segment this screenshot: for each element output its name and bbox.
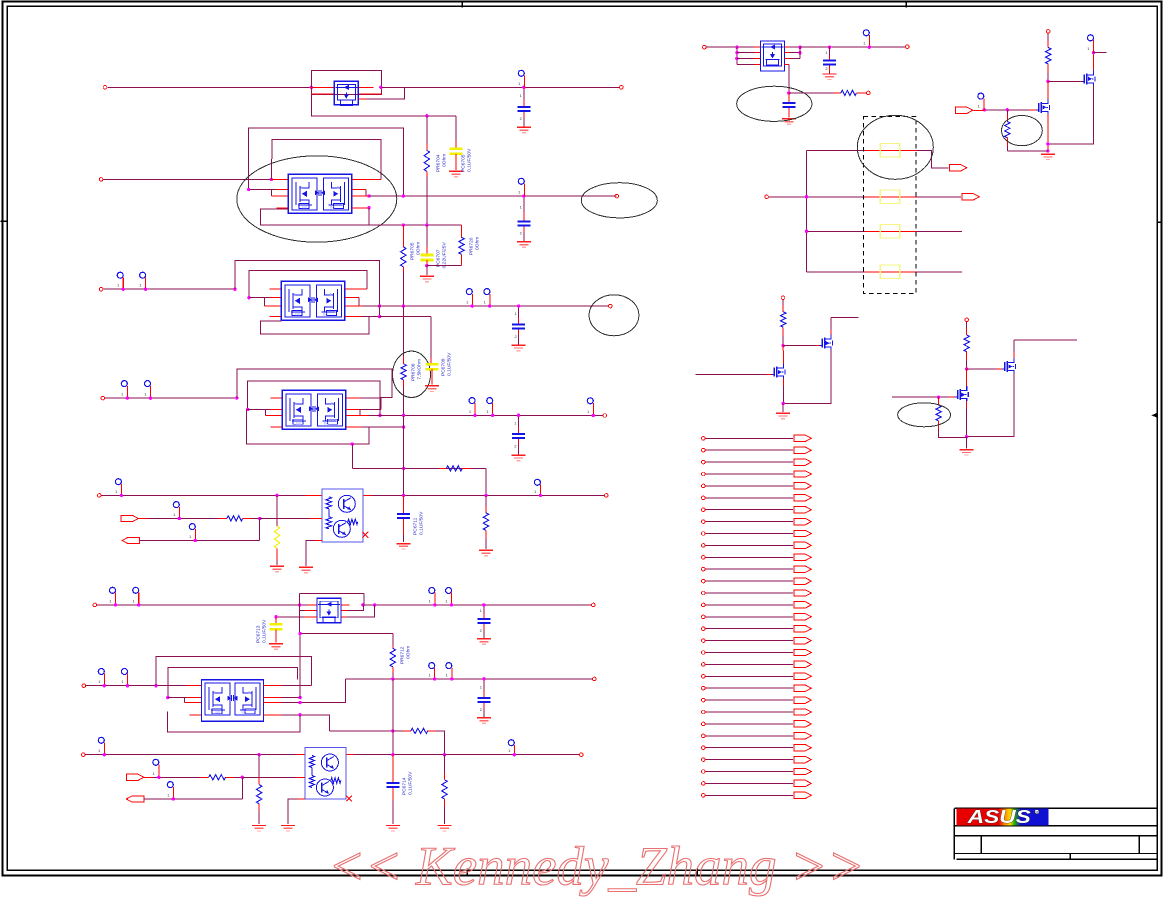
junction rowG in bbox=[298, 603, 301, 606]
pin conn row3 bbox=[702, 460, 706, 464]
svg-text:PR6705: PR6705 bbox=[409, 242, 415, 260]
connector arrow row16 bbox=[794, 614, 812, 620]
junction B r4 bbox=[378, 315, 381, 318]
connector arrow D in bbox=[121, 515, 139, 521]
wire rowF main left bbox=[85, 754, 305, 756]
wire conn row24 bbox=[705, 711, 793, 713]
pin input rowE bbox=[82, 684, 86, 688]
title block line4 bbox=[954, 853, 1157, 855]
wire bus B-R6708 bbox=[402, 306, 404, 357]
wire rowB out bbox=[362, 305, 608, 307]
wire nodeB left bbox=[1007, 150, 1048, 152]
resistor RF lead1 bbox=[200, 776, 208, 778]
junction rowE p1 bbox=[103, 684, 106, 687]
connector arrow row26 bbox=[794, 733, 812, 739]
pin stub D bot bbox=[314, 540, 322, 542]
wire conn row31 bbox=[705, 794, 793, 796]
pin stub B right4 bbox=[345, 316, 380, 318]
ground PC6705 bbox=[449, 171, 463, 177]
pin stub H right2 bbox=[785, 52, 790, 54]
wire bus C-D bbox=[403, 415, 405, 468]
capacitor PC6714 lead2 bbox=[392, 788, 394, 800]
pin stub B right2 bbox=[345, 297, 359, 299]
junction E r4 bbox=[298, 713, 301, 716]
pin conn row2 bbox=[702, 448, 706, 452]
junction rowC rp1 bbox=[473, 414, 476, 417]
junction rowF bus bbox=[391, 753, 394, 756]
wire Q6705 source bbox=[967, 373, 1014, 437]
label PC6714 bbox=[401, 771, 413, 795]
wire link row1 left bbox=[807, 149, 865, 151]
resistor R6712c bbox=[964, 322, 969, 361]
wire arrowF2 vert bbox=[241, 777, 243, 799]
capacitor PC6711 bbox=[397, 514, 410, 518]
pin stub B right1 bbox=[345, 288, 367, 290]
wire E row1 right bbox=[282, 685, 312, 687]
pin stub E right3 bbox=[263, 702, 281, 704]
wire Q6702 drain bbox=[1093, 53, 1095, 71]
resistor PR6720 bbox=[459, 237, 464, 254]
junction E bus out bbox=[391, 677, 394, 680]
capacitor PC6707 lead bbox=[426, 225, 428, 254]
wire nodeF stem bbox=[966, 437, 968, 449]
junction rowD r2 bbox=[484, 494, 487, 497]
junction rowE rp2 bbox=[450, 677, 453, 680]
title block line3 bbox=[954, 835, 1157, 837]
wire A right bridge bbox=[365, 190, 367, 197]
wire row1 out bbox=[381, 86, 619, 88]
wire loop G topL bbox=[299, 594, 301, 605]
pin end rowB bbox=[609, 304, 613, 308]
wire input rowC bbox=[105, 397, 237, 399]
pin conn row28 bbox=[702, 758, 706, 762]
ellipse around link row1 bbox=[857, 115, 933, 179]
svg-text:ASUS: ASUS bbox=[967, 806, 1032, 827]
junction nodeC bbox=[782, 344, 785, 347]
junction nodeE bbox=[965, 367, 968, 370]
svg-text:0Ohm: 0Ohm bbox=[474, 237, 480, 250]
junction arrowF2 bbox=[172, 797, 175, 800]
ground F bottom bbox=[281, 826, 295, 832]
pin stub E right2 bbox=[263, 697, 281, 699]
pin stub F right bbox=[346, 754, 354, 756]
ground RF3 bbox=[438, 826, 452, 832]
junction cap rowG bbox=[482, 603, 485, 606]
ground D bottom bbox=[299, 567, 313, 573]
pin conn row30 bbox=[702, 782, 706, 786]
junction E left2 bbox=[166, 696, 169, 699]
junction cap rowC bbox=[517, 414, 520, 417]
resistor R link bbox=[446, 466, 462, 471]
pin stub E left1 bbox=[186, 685, 201, 687]
wire conn row17 bbox=[705, 628, 793, 630]
wire F bottom pin bbox=[288, 799, 305, 824]
pin input rowA bbox=[99, 178, 103, 182]
junction rowC rp2 bbox=[491, 414, 494, 417]
resistor PR6712 bbox=[390, 645, 395, 672]
connector arrow row23 bbox=[794, 697, 812, 703]
pin stub B right3 bbox=[345, 305, 363, 307]
wire link row3 right bbox=[916, 230, 962, 232]
svg-text:B6: B6 bbox=[302, 204, 308, 209]
wire B left bridge bbox=[263, 298, 265, 306]
pin stub B left1 bbox=[269, 288, 281, 290]
border tick right bbox=[1156, 221, 1162, 223]
resistor R link2 bbox=[411, 728, 428, 733]
connector arrow row7 bbox=[794, 507, 812, 513]
pin circle arrowF2 bbox=[167, 782, 173, 799]
connector arrow row11 bbox=[794, 554, 812, 560]
pin circle rowH bbox=[863, 30, 869, 47]
wire bus E-F bbox=[392, 679, 394, 755]
ellipse around R6713 bbox=[898, 403, 951, 427]
pin conn row11 bbox=[702, 556, 706, 560]
junction row1 left bbox=[310, 86, 313, 89]
wire E r2 up bbox=[299, 634, 301, 698]
wire rowD link bbox=[352, 468, 486, 470]
wire PQ6701 down branch bbox=[311, 94, 456, 116]
pin conn row8 bbox=[702, 520, 706, 524]
pin R6712 top bbox=[965, 318, 969, 322]
wire input rowA bbox=[103, 178, 271, 180]
wire H rrow2 bbox=[789, 52, 800, 54]
pin stub B left3 bbox=[264, 305, 281, 307]
junction rowE in bbox=[154, 684, 157, 687]
pin conn row27 bbox=[702, 746, 706, 750]
capacitor PC6705 bbox=[450, 149, 463, 154]
label PR6708 bbox=[410, 359, 422, 381]
pin stub G left1 bbox=[307, 604, 317, 606]
junction link2 bus bbox=[391, 729, 394, 732]
wire conn row25 bbox=[705, 723, 793, 725]
wire R6713 bot bbox=[939, 429, 967, 438]
junction arrowD2 bbox=[194, 539, 197, 542]
svg-text:PC6711: PC6711 bbox=[412, 517, 418, 535]
pin stub F in2 bbox=[297, 776, 305, 778]
wire arrowD2 vert bbox=[259, 519, 261, 541]
junction rowC in bbox=[235, 396, 238, 399]
wire yres down bbox=[276, 495, 278, 526]
pin stub Q6703 gate bbox=[815, 345, 819, 347]
junction rowE rp1 bbox=[433, 677, 436, 680]
transistor Q6704 bbox=[771, 364, 785, 379]
pin circle rowC 2 bbox=[144, 381, 150, 399]
pin end row1 bbox=[620, 86, 624, 90]
wire conn row5 bbox=[705, 485, 793, 487]
junction rowG rp2 bbox=[450, 603, 453, 606]
label PC6705 bbox=[460, 148, 472, 172]
connector arrow link1 bbox=[949, 165, 967, 171]
junction H l2 bbox=[735, 51, 738, 54]
resistor yellow PR bbox=[274, 526, 279, 548]
resistor R6709 bbox=[1046, 33, 1051, 72]
wire rowE out bbox=[346, 678, 593, 680]
junction Q6702 d bbox=[1092, 51, 1095, 54]
pin circle rowG 2 bbox=[132, 587, 138, 605]
pin circle rowF end bbox=[508, 740, 514, 755]
wire arrowD2 bbox=[140, 540, 260, 542]
junction rowF p1 bbox=[103, 753, 106, 756]
pin stub H right4 bbox=[785, 64, 789, 66]
wire link2 right bbox=[435, 731, 444, 755]
label PC6711 bbox=[412, 511, 424, 535]
junction rowD bus bbox=[402, 494, 405, 497]
wire yres gnd bbox=[276, 560, 278, 565]
wire conn row6 bbox=[705, 497, 793, 499]
wire G row2 left bbox=[300, 605, 312, 611]
pin stub C left2 bbox=[248, 409, 283, 411]
title block line2 bbox=[954, 825, 1157, 827]
wire H lrow3 bbox=[737, 58, 754, 60]
resistor R link lead1 bbox=[438, 468, 446, 470]
border tick top 1 bbox=[461, 0, 463, 7]
wire conn row29 bbox=[705, 771, 793, 773]
svg-text:PR6704: PR6704 bbox=[435, 154, 441, 172]
wire E left bridge bbox=[183, 698, 185, 703]
junction gate bbox=[1006, 108, 1009, 111]
wire conn row13 bbox=[705, 580, 793, 582]
wire rowH out bbox=[800, 46, 905, 48]
junction cluster2 c2 bbox=[425, 223, 428, 226]
connector arrow row25 bbox=[794, 721, 812, 727]
junction H r1 bbox=[798, 46, 801, 49]
junction rowB in bbox=[233, 287, 236, 290]
wire D bottom pin bbox=[306, 541, 322, 566]
junction nodeA bbox=[1046, 80, 1049, 83]
junction A left2 bbox=[247, 188, 250, 191]
wire nodeE down bbox=[966, 369, 968, 386]
connector arrow row4 bbox=[794, 471, 812, 477]
pin stub H left4 bbox=[754, 64, 761, 66]
wire nodeA right bbox=[1048, 80, 1080, 82]
pin circle arrow top bbox=[978, 93, 984, 110]
wire conn row18 bbox=[705, 640, 793, 642]
junction C row4 bus bbox=[402, 425, 405, 428]
pin circle rowD end bbox=[534, 479, 540, 495]
border tick bottom 2 bbox=[696, 868, 698, 876]
svg-text:0,22UF/25V: 0,22UF/25V bbox=[441, 242, 447, 269]
label PC6707 bbox=[435, 242, 447, 269]
connector arrow F out bbox=[126, 796, 144, 802]
wire nodeC right bbox=[783, 345, 815, 347]
label PR6720 bbox=[468, 237, 480, 256]
wire cluster2 bbox=[260, 224, 461, 226]
title block div3 bbox=[1069, 854, 1071, 860]
pin stub C left1 bbox=[270, 397, 282, 399]
wire E link bbox=[330, 730, 404, 732]
wire rowC out bbox=[368, 414, 603, 416]
svg-text:PC6714: PC6714 bbox=[401, 777, 407, 795]
connector arrow D out bbox=[122, 537, 140, 543]
mosfet pair PQ6702 bbox=[288, 174, 352, 213]
pin conn row4 bbox=[702, 472, 706, 476]
pin stub F inleft bbox=[296, 754, 305, 756]
pin input rowG bbox=[93, 603, 97, 607]
wire Q6705 drain bbox=[1013, 340, 1015, 358]
resistor yellow lead bbox=[276, 548, 278, 560]
pin conn row12 bbox=[702, 567, 706, 571]
mosfet pair PQ6703 bbox=[281, 281, 345, 320]
title block div1 bbox=[980, 836, 982, 854]
wire E lower loop bbox=[167, 711, 299, 732]
pin stub G right3 bbox=[341, 616, 346, 618]
wire rowG out bbox=[363, 604, 591, 606]
pin stub G left3 bbox=[304, 616, 317, 618]
wire conn row15 bbox=[705, 604, 793, 606]
wire conn row27 bbox=[705, 747, 793, 749]
wire arrow lead bbox=[973, 109, 984, 111]
junction A right4 bbox=[367, 206, 370, 209]
wire PR6712 top bbox=[392, 634, 394, 646]
inductor pack row3 bbox=[880, 225, 900, 239]
pin circle rowE r1 bbox=[428, 663, 434, 679]
junction rowD pe bbox=[539, 494, 542, 497]
wire B row4 right bbox=[380, 316, 432, 318]
pin conn row19 bbox=[702, 651, 706, 655]
wire RF to junction bbox=[234, 776, 243, 778]
wire conn row9 bbox=[705, 533, 793, 535]
connector arrow row5 bbox=[794, 483, 812, 489]
wire RD2 gnd bbox=[485, 538, 487, 549]
resistor RH lead2 bbox=[856, 92, 866, 94]
junction cap rowB bbox=[517, 304, 520, 307]
connector arrow row19 bbox=[794, 649, 812, 655]
pin conn row7 bbox=[702, 508, 706, 512]
pin conn row1 bbox=[702, 437, 706, 441]
wire conn row1 bbox=[705, 437, 793, 439]
wire Q6703 drain bbox=[830, 317, 832, 334]
pin stub PQ6701 right2 bbox=[358, 93, 381, 95]
transistor module PQ6708 bbox=[305, 748, 346, 800]
connector arrow row24 bbox=[794, 709, 812, 715]
wire Q6701 gate bbox=[1030, 109, 1036, 111]
pin conn row6 bbox=[702, 496, 706, 500]
pin conn row5 bbox=[702, 484, 706, 488]
junction rowD yres bbox=[275, 494, 278, 497]
capacitor C rowC bbox=[512, 415, 526, 461]
wire loop G topR bbox=[363, 594, 365, 605]
connector arrow row21 bbox=[794, 673, 812, 679]
capacitor CH lead2 bbox=[788, 108, 790, 118]
junction rowB p1 bbox=[122, 287, 125, 290]
pin stub G right1 bbox=[341, 604, 349, 606]
junction nodeD bbox=[782, 402, 785, 405]
pin stub Q6702 gate bbox=[1080, 80, 1084, 82]
wire C row4 to bus bbox=[369, 426, 404, 428]
junction H branch bbox=[787, 91, 790, 94]
wire G tap down bbox=[346, 605, 374, 617]
pin stub D in2 bbox=[309, 518, 322, 520]
junction rowE p2 bbox=[126, 684, 129, 687]
pin stub E right4 bbox=[263, 714, 281, 716]
ellipse around PQ6702 bbox=[237, 156, 397, 242]
wire link row2 red bbox=[865, 196, 916, 198]
capacitor PC6713 lead bbox=[275, 617, 277, 624]
resistor PR6708 lead2 bbox=[403, 380, 405, 387]
pin stub A right2 bbox=[352, 189, 366, 191]
wire R6712c node bbox=[966, 360, 968, 369]
transistor Q6705 bbox=[1002, 358, 1016, 373]
junction nodeB bbox=[1046, 142, 1049, 145]
inductor pack row4 bbox=[880, 265, 900, 279]
wire RF3 gnd bbox=[444, 806, 446, 824]
resistor RD2 bbox=[483, 495, 488, 538]
connector arrow row14 bbox=[794, 590, 812, 596]
pin end rowC bbox=[603, 414, 607, 418]
wire input rowB bbox=[103, 288, 235, 290]
wire input rowH bbox=[706, 46, 754, 48]
pin conn row21 bbox=[702, 675, 706, 679]
junction link row3 bbox=[805, 230, 808, 233]
pin stub PQ6701 right1 bbox=[358, 86, 373, 88]
connector arrow row22 bbox=[794, 685, 812, 691]
junction C bus bbox=[402, 414, 405, 417]
wire H branch right bbox=[789, 92, 834, 94]
junction gate2 bbox=[937, 395, 940, 398]
wire Q6701 drain bbox=[1047, 81, 1049, 99]
pin conn row9 bbox=[702, 532, 706, 536]
pin input rowH bbox=[703, 45, 707, 49]
pin end rowD bbox=[605, 494, 609, 498]
wire conn row3 bbox=[705, 461, 793, 463]
logo ASUS bbox=[956, 806, 1048, 827]
wire conn row7 bbox=[705, 509, 793, 511]
junction G yc bbox=[274, 615, 277, 618]
pin end rowF bbox=[580, 753, 584, 757]
wire input rowG bbox=[97, 604, 317, 606]
svg-text:0Ohm: 0Ohm bbox=[405, 646, 411, 659]
wire conn row2 bbox=[705, 449, 793, 451]
pin circle arrowD2 bbox=[189, 524, 195, 541]
junction H pc bbox=[868, 46, 871, 49]
wire Q6703 source bbox=[783, 350, 831, 404]
capacitor PC6709 lead bbox=[430, 357, 432, 363]
wire bus link-D bbox=[403, 469, 405, 496]
wire bus left links bbox=[806, 150, 808, 271]
wire RF2 gnd bbox=[258, 816, 260, 824]
resistor RD lead2 bbox=[243, 518, 252, 520]
transistor Q6703 bbox=[819, 335, 833, 350]
wire Q6702 stub right bbox=[1094, 52, 1107, 54]
wire conn row8 bbox=[705, 521, 793, 523]
pin R6709 top bbox=[1046, 30, 1050, 34]
svg-text:PC6713: PC6713 bbox=[255, 625, 261, 643]
pin conn row16 bbox=[702, 615, 706, 619]
wire conn row30 bbox=[705, 782, 793, 784]
wire Q6706 gate wire bbox=[892, 396, 949, 398]
wire RD to junction bbox=[251, 518, 259, 520]
junction B bus bbox=[402, 304, 405, 307]
pin stub C left3 bbox=[265, 414, 282, 416]
resistor RH lead1 bbox=[833, 92, 841, 94]
wire conn row28 bbox=[705, 759, 793, 761]
connector arrow row10 bbox=[794, 542, 812, 548]
pin end rowH bbox=[906, 45, 910, 49]
junction RD bbox=[258, 517, 261, 520]
pin circle rowB r2 bbox=[484, 289, 490, 307]
pin link row2 bbox=[765, 195, 769, 199]
pin conn row20 bbox=[702, 663, 706, 667]
wire link row2 right bbox=[916, 196, 961, 198]
wire link row4 right bbox=[916, 271, 962, 273]
pin conn row23 bbox=[702, 698, 706, 702]
wire arrowF lead bbox=[144, 776, 153, 778]
wire conn row22 bbox=[705, 687, 793, 689]
pin circle arrowD bbox=[173, 502, 179, 519]
junction rowB p2 bbox=[144, 287, 147, 290]
junction link bus bbox=[402, 467, 405, 470]
wire conn row21 bbox=[705, 675, 793, 677]
